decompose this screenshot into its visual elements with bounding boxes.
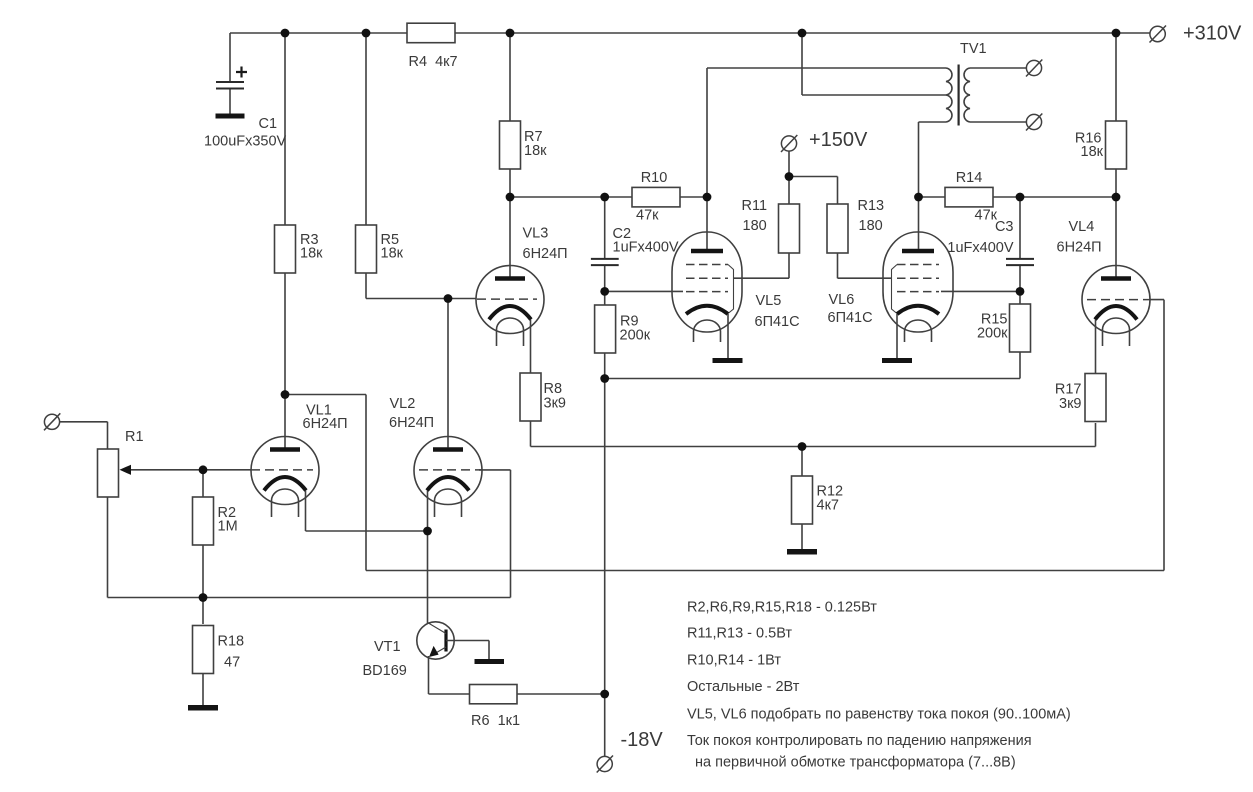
- wire +150V branch to R13: [789, 177, 838, 205]
- wire VL6 grid to C3 junction: [941, 290, 1020, 292]
- resistor R2: [193, 497, 238, 545]
- wire R7 branch: [509, 33, 511, 278]
- tube VL2: [389, 396, 482, 517]
- wire R17 bottom to common cathode line: [531, 423, 1096, 447]
- svg-text:R2,R6,R9,R15,R18 - 0.125Вт: R2,R6,R9,R15,R18 - 0.125Вт: [687, 600, 877, 616]
- svg-text:47к: 47к: [636, 208, 659, 224]
- svg-text:R10: R10: [641, 170, 668, 186]
- wire R13 bottom to VL6 screen: [838, 253, 893, 278]
- resistor R4: [407, 23, 458, 70]
- svg-text:C3: C3: [995, 219, 1014, 235]
- tube VL1: [251, 403, 348, 518]
- svg-text:+310V: +310V: [1183, 23, 1242, 45]
- node C2-R9-VL5grid: [600, 287, 609, 296]
- svg-text:3к9: 3к9: [544, 396, 566, 412]
- wire R8 bottom: [530, 421, 532, 447]
- node R10-VL5: [703, 193, 712, 202]
- wire C2 to R9: [604, 291, 606, 305]
- node R14-R16-VL4: [1112, 193, 1121, 202]
- resistor R5: [356, 225, 404, 273]
- wire VL2 cathode down to VT1: [427, 491, 429, 624]
- svg-text:BD169: BD169: [363, 663, 407, 679]
- wire R5 branch: [366, 33, 477, 299]
- svg-text:6П41С: 6П41С: [828, 310, 873, 326]
- terminal +150V: [781, 135, 797, 152]
- potentiometer R1: [98, 429, 204, 497]
- terminal TV1 secondary bottom: [1026, 114, 1042, 131]
- svg-text:1uFx400V: 1uFx400V: [613, 240, 679, 256]
- svg-text:R1: R1: [125, 429, 144, 445]
- svg-text:VL6: VL6: [829, 292, 855, 308]
- wire R14 right to R16/VL4: [993, 196, 1116, 198]
- transistor VT1: [363, 622, 455, 679]
- transformer TV1: [802, 41, 1026, 126]
- resistor R15: [977, 304, 1031, 352]
- svg-text:C1: C1: [259, 116, 278, 132]
- capacitor C2: [591, 197, 679, 291]
- tube VL6: [828, 232, 954, 358]
- terminal +310V: [1150, 26, 1167, 43]
- resistor R12: [792, 476, 844, 524]
- wire VL4 grid feedback from VL1 anode: [285, 300, 1164, 571]
- node VL1-VL2 cathodes: [423, 527, 432, 536]
- node rail-R7: [506, 29, 515, 38]
- node R7-R10: [506, 193, 515, 202]
- svg-text:VL2: VL2: [390, 396, 416, 412]
- node rail-R16: [1112, 29, 1121, 38]
- svg-text:6Н24П: 6Н24П: [303, 416, 348, 432]
- svg-text:на первичной обмотке трансформ: на первичной обмотке трансформатора (7..…: [695, 755, 1016, 771]
- wire VL2 anode column from VL3 grid junction: [447, 299, 449, 448]
- svg-text:R10,R14 - 1Вт: R10,R14 - 1Вт: [687, 653, 781, 669]
- ground VL5 cathode: [713, 358, 743, 363]
- wire C3 to R15: [1019, 291, 1021, 304]
- wire input to R1: [60, 422, 108, 449]
- wire R2 tap: [202, 470, 204, 497]
- svg-text:18к: 18к: [381, 246, 404, 262]
- wire R7 bottom to R10: [510, 196, 632, 198]
- wire R18 tap: [202, 598, 204, 625]
- wire R16 branch: [1115, 33, 1117, 277]
- svg-text:Остальные - 2Вт: Остальные - 2Вт: [687, 679, 800, 695]
- wire R14 left: [919, 196, 946, 198]
- svg-text:180: 180: [859, 218, 883, 234]
- wire R1 wiper junction to VL1 grid: [203, 469, 251, 471]
- svg-text:R6 1к1: R6 1к1: [471, 713, 520, 729]
- svg-text:18к: 18к: [1081, 144, 1104, 160]
- resistor R6: [470, 685, 521, 730]
- svg-text:R11,R13 - 0.5Вт: R11,R13 - 0.5Вт: [687, 626, 792, 642]
- svg-text:R4 4к7: R4 4к7: [409, 54, 458, 70]
- ground R12: [787, 549, 817, 555]
- wire VL1 cathode to VL2 cathode junction: [306, 491, 428, 532]
- node R9-R15 bias: [600, 374, 609, 383]
- wire R12 tap: [801, 447, 803, 477]
- node R2-R18-fb: [199, 593, 208, 602]
- wire VL5 screen to R11: [734, 277, 789, 279]
- svg-text:VL3: VL3: [523, 226, 549, 242]
- wire R9 bottom long column to -18V: [604, 353, 606, 757]
- svg-text:4к7: 4к7: [817, 498, 839, 514]
- node R14-C3: [1016, 193, 1025, 202]
- wire R6 to -18V column: [517, 693, 605, 695]
- tube VL3: [476, 226, 568, 347]
- node rail-TV1: [798, 29, 807, 38]
- ground C1: [216, 114, 245, 119]
- svg-text:Ток покоя контролировать по па: Ток покоя контролировать по падению напр…: [687, 733, 1032, 749]
- wire +310V top rail: [230, 32, 1150, 34]
- resistor R17: [1055, 374, 1106, 422]
- notes text: [687, 600, 1071, 771]
- wire VL5 grid lead: [605, 290, 683, 292]
- resistor R3: [275, 225, 324, 273]
- resistor R11: [742, 198, 800, 253]
- wire VL3 cathode to R8: [530, 320, 532, 374]
- tube VL5: [672, 232, 800, 358]
- terminal -18V: [597, 756, 613, 773]
- wire VT1 emitter to R6: [429, 656, 470, 694]
- wire VT1 base to ground: [446, 641, 489, 660]
- tube VL4: [1057, 219, 1151, 346]
- svg-text:18к: 18к: [524, 143, 547, 159]
- node R5-VL3grid-VL2anode: [444, 294, 453, 303]
- svg-text:+150V: +150V: [809, 129, 868, 151]
- svg-text:VL5, VL6 подобрать по равенств: VL5, VL6 подобрать по равенству тока пок…: [687, 707, 1071, 723]
- svg-text:VL5: VL5: [756, 293, 782, 309]
- resistor R16: [1075, 121, 1127, 169]
- resistor R10: [632, 170, 680, 224]
- capacitor C1: [204, 33, 287, 150]
- wire R12 bottom: [801, 524, 803, 549]
- wire TV1 primary top lead: [707, 67, 946, 69]
- svg-text:R18: R18: [218, 634, 245, 650]
- wire R18 bottom: [202, 674, 204, 706]
- svg-text:180: 180: [743, 218, 767, 234]
- svg-text:200к: 200к: [620, 328, 651, 344]
- svg-text:3к9: 3к9: [1059, 396, 1081, 412]
- node +150V-R11-R13: [785, 172, 794, 181]
- wire VL4 cathode to R17: [1095, 320, 1097, 376]
- svg-text:-18V: -18V: [621, 729, 664, 751]
- svg-text:6Н24П: 6Н24П: [523, 246, 568, 262]
- ground VL6 cathode: [882, 358, 912, 363]
- ground VT1 base: [475, 659, 505, 664]
- svg-text:6П41С: 6П41С: [755, 314, 800, 330]
- svg-text:R14: R14: [956, 170, 983, 186]
- wire +310V rail to TV1 center tap: [801, 33, 803, 95]
- svg-text:R13: R13: [858, 198, 885, 214]
- svg-text:200к: 200к: [977, 326, 1008, 342]
- ground R18: [188, 705, 218, 711]
- svg-text:VT1: VT1: [374, 639, 401, 655]
- node rail-R3: [281, 29, 290, 38]
- svg-text:18к: 18к: [300, 246, 323, 262]
- terminal input: [44, 413, 60, 430]
- capacitor C3: [947, 197, 1034, 291]
- node rail-R5: [362, 29, 371, 38]
- wire +150V to R11: [788, 151, 790, 204]
- wire R10 right to VL5 anode column: [680, 68, 707, 249]
- svg-text:1uFx400V: 1uFx400V: [947, 240, 1013, 256]
- resistor R8: [520, 373, 566, 421]
- resistor R9: [595, 305, 651, 353]
- svg-text:1M: 1M: [218, 519, 238, 535]
- svg-text:47: 47: [224, 655, 240, 671]
- wire R2 bottom: [202, 545, 204, 598]
- resistor R13: [827, 198, 884, 253]
- wire R11 bottom: [788, 253, 790, 278]
- resistor R7: [500, 121, 548, 169]
- resistor R18: [193, 626, 245, 674]
- svg-text:VL4: VL4: [1069, 219, 1095, 235]
- svg-text:TV1: TV1: [960, 41, 987, 57]
- node C3-R15-VL6grid: [1016, 287, 1025, 296]
- svg-text:6Н24П: 6Н24П: [1057, 240, 1102, 256]
- wire bias line R9 column to R15 bottom: [605, 352, 1020, 379]
- node TV1-VL6-R14: [914, 193, 923, 202]
- wire R3 branch: [284, 33, 286, 448]
- node R6--18V: [600, 690, 609, 699]
- node R1-R2-VL1grid: [199, 465, 208, 474]
- wire VL6 anode column / TV1 primary bottom: [918, 122, 920, 249]
- node R8-R17-R12: [798, 442, 807, 451]
- svg-text:R11: R11: [742, 198, 768, 214]
- terminal TV1 secondary top: [1026, 60, 1042, 77]
- node R3-VL1anode: [281, 390, 290, 399]
- resistor R14: [945, 170, 998, 224]
- svg-text:100uFx350V: 100uFx350V: [204, 134, 287, 150]
- wire VL2 grid feedback loop: [108, 470, 511, 598]
- wire R1 bottom: [107, 497, 109, 598]
- node C2-R10: [600, 193, 609, 202]
- svg-text:6Н24П: 6Н24П: [389, 415, 434, 431]
